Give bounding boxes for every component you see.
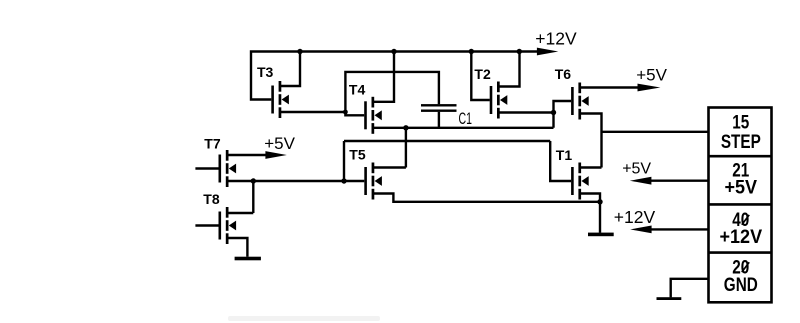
svg-text:+12V: +12V [535,29,577,49]
svg-text:T2: T2 [474,66,491,82]
svg-text:T6: T6 [555,66,572,82]
svg-text:T5: T5 [349,147,366,163]
svg-text:STEP: STEP [721,130,761,152]
svg-text:+12V: +12V [720,225,763,247]
svg-text:T8: T8 [203,191,220,207]
svg-text:T3: T3 [257,64,274,80]
svg-text:+5V: +5V [636,66,667,85]
svg-text:C1: C1 [459,110,472,128]
svg-text:GND: GND [724,273,758,295]
svg-text:+5V: +5V [725,176,758,198]
svg-text:+12V: +12V [614,207,656,227]
svg-text:+5V: +5V [622,161,651,178]
svg-text:T4: T4 [349,81,366,97]
svg-text:T7: T7 [204,136,221,152]
svg-text:+5V: +5V [264,134,295,153]
svg-text:T1: T1 [556,147,573,163]
